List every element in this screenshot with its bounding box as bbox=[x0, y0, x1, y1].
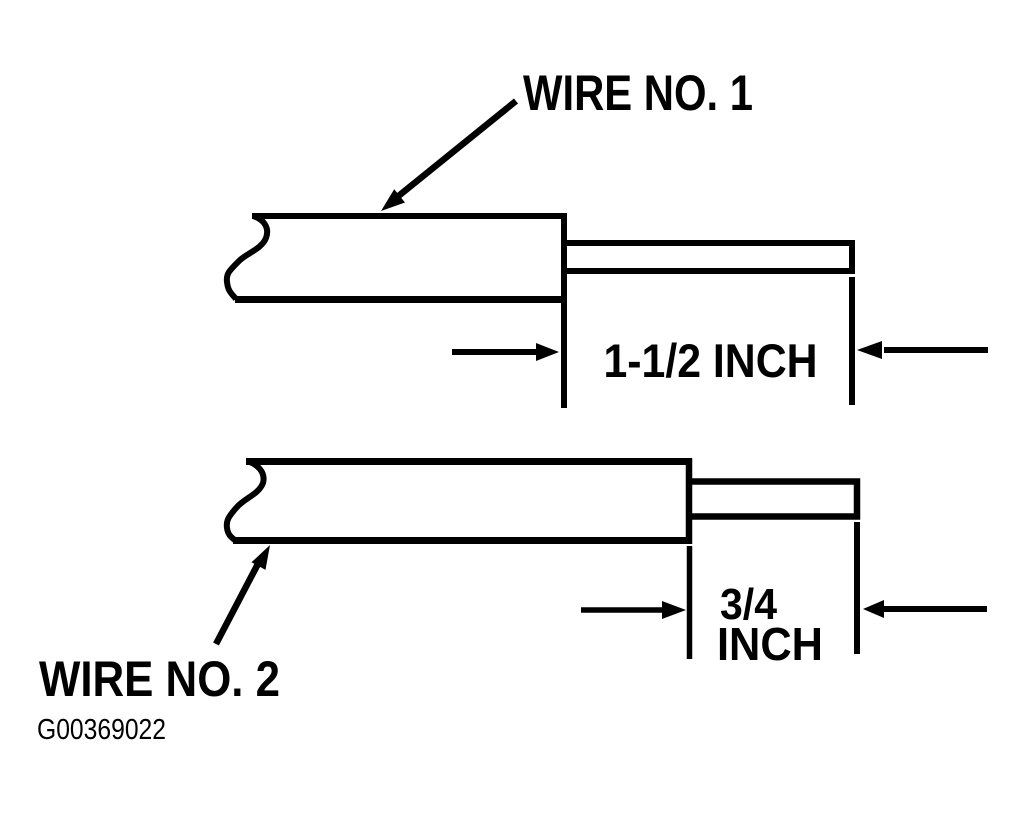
svg-text:WIRE NO. 2: WIRE NO. 2 bbox=[39, 651, 280, 707]
svg-text:G00369022: G00369022 bbox=[37, 714, 166, 746]
svg-text:INCH: INCH bbox=[717, 618, 823, 670]
svg-text:WIRE NO. 1: WIRE NO. 1 bbox=[523, 65, 753, 121]
svg-text:1-1/2 INCH: 1-1/2 INCH bbox=[604, 335, 818, 388]
